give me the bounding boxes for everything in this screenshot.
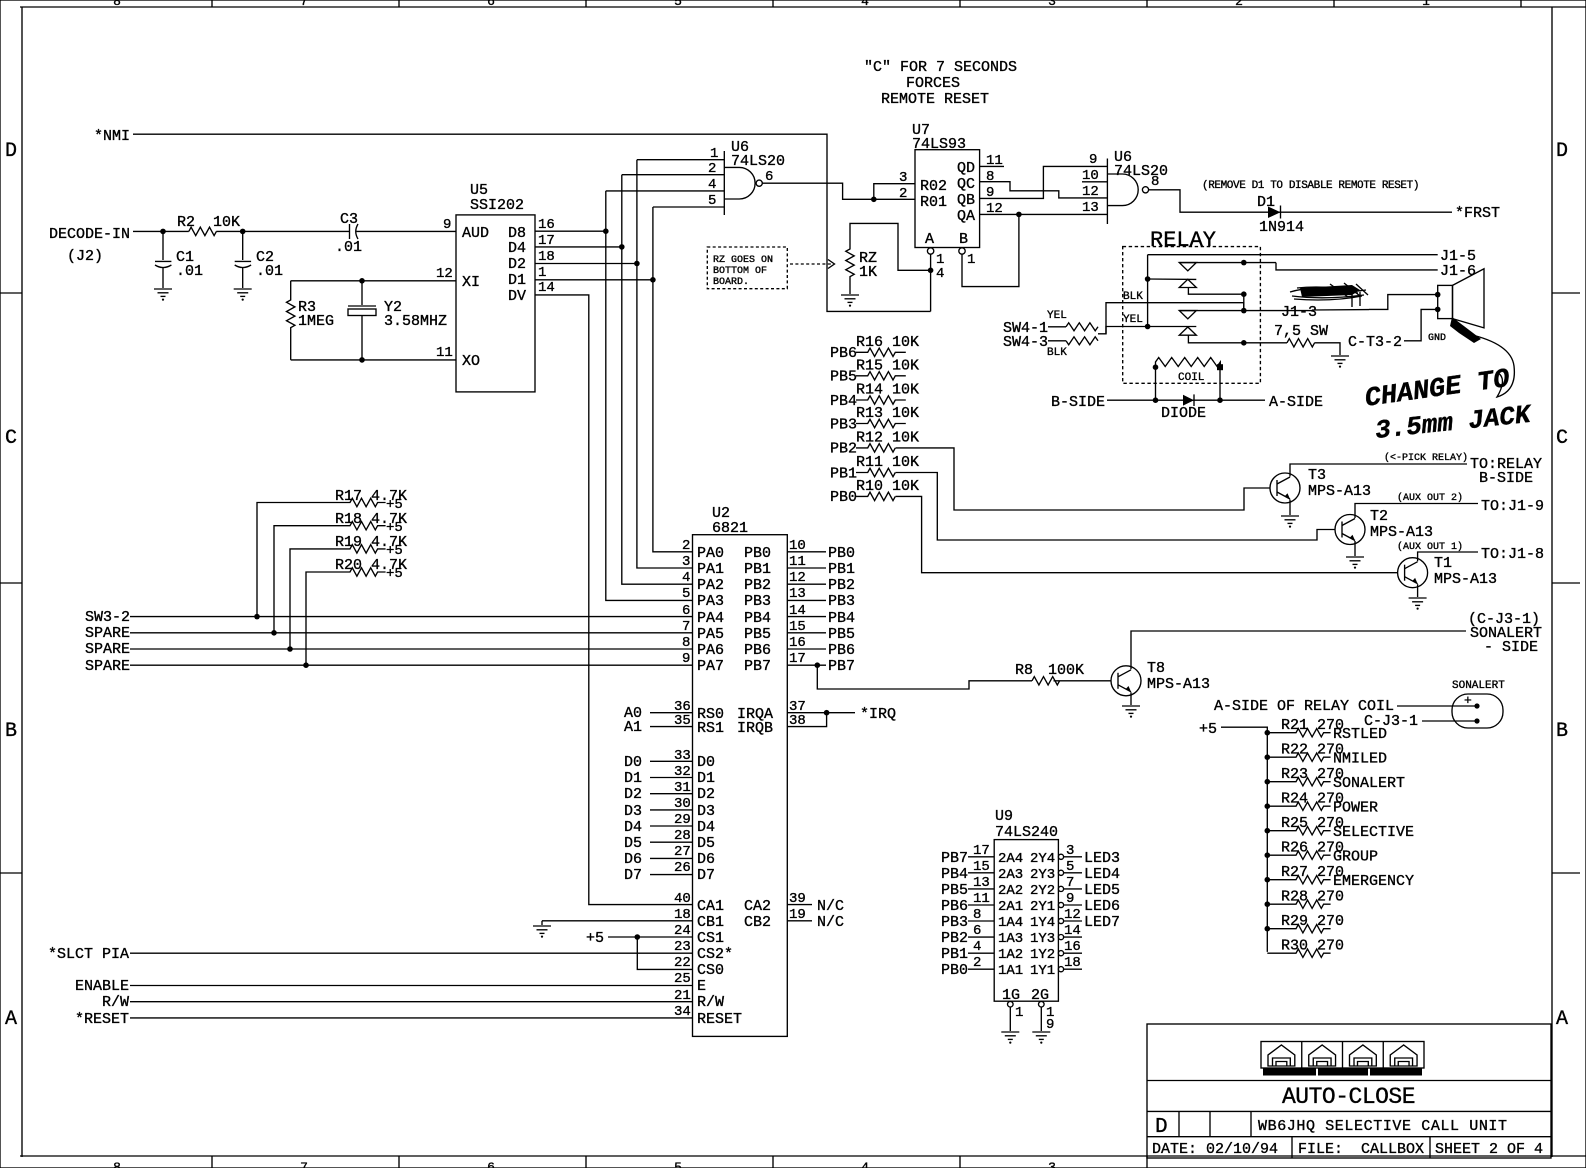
svg-text:D4: D4	[508, 240, 526, 257]
wire XO rail	[291, 359, 456, 361]
junction coil left	[1153, 364, 1159, 370]
svg-text:PA0: PA0	[697, 545, 724, 562]
svg-text:*NMI: *NMI	[94, 128, 130, 145]
wire pin4	[606, 190, 725, 192]
svg-text:PB0: PB0	[830, 489, 857, 506]
svg-text:PB0: PB0	[744, 545, 771, 562]
svg-text:E: E	[697, 978, 706, 995]
wire B-SIDE A-SIDE	[1107, 399, 1265, 401]
svg-text:A: A	[5, 1008, 17, 1031]
pin 12 LED7	[1058, 918, 1063, 923]
svg-text:SHEET 2 OF 4: SHEET 2 OF 4	[1435, 1141, 1543, 1158]
svg-text:2A3: 2A3	[998, 867, 1023, 883]
wire T3 collector	[1290, 464, 1467, 477]
svg-text:+: +	[1464, 693, 1472, 708]
svg-text:YEL: YEL	[1047, 310, 1067, 322]
svg-text:1Y1: 1Y1	[1030, 963, 1055, 979]
svg-text:PB4: PB4	[941, 866, 968, 883]
wire QC to pin12	[980, 182, 1108, 198]
U7GROUP	[707, 122, 1019, 311]
svg-text:PB3: PB3	[828, 593, 855, 610]
wire bus D1-PA0	[653, 207, 693, 552]
svg-text:D2: D2	[508, 256, 526, 273]
junction jack top	[1435, 292, 1441, 298]
ground T8	[1122, 706, 1140, 718]
svg-text:D7: D7	[697, 867, 715, 884]
svg-text:9: 9	[1089, 152, 1097, 168]
pin 16 stub	[1058, 951, 1063, 956]
ground C1	[154, 289, 172, 301]
svg-text:9: 9	[986, 185, 994, 201]
wire J1-3	[1244, 310, 1312, 312]
wire +5 rail	[1221, 727, 1267, 952]
svg-text:*FRST: *FRST	[1455, 205, 1500, 222]
svg-text:FORCES: FORCES	[906, 75, 960, 92]
svg-text:PB3: PB3	[830, 416, 857, 433]
svg-text:1Y4: 1Y4	[1030, 915, 1055, 931]
PBGROUP	[830, 334, 1398, 573]
pin 35 RS1	[650, 726, 693, 728]
svg-text:1A3: 1A3	[998, 931, 1023, 947]
U2GROUP	[48, 488, 896, 1036]
svg-text:1K: 1K	[859, 264, 877, 281]
svg-text:27: 27	[674, 844, 691, 860]
svg-text:XI: XI	[462, 274, 480, 291]
svg-text:30: 30	[674, 796, 691, 812]
svg-text:D7: D7	[624, 867, 642, 884]
pin 18 stub	[1058, 967, 1063, 972]
contact B fixed	[1179, 310, 1244, 312]
wire CB1 to gnd	[542, 920, 693, 922]
TRANSISTORS	[817, 452, 1544, 718]
svg-text:14: 14	[538, 280, 555, 296]
svg-text:4: 4	[861, 0, 869, 9]
junction jack bottom	[1435, 307, 1441, 313]
svg-text:PA1: PA1	[697, 561, 724, 578]
ground T1	[1409, 598, 1427, 610]
svg-text:PB0: PB0	[941, 962, 968, 979]
svg-text:8: 8	[986, 169, 994, 185]
svg-text:18: 18	[538, 249, 555, 265]
scribble crossout	[1290, 283, 1368, 307]
svg-text:1MEG: 1MEG	[298, 313, 334, 330]
svg-text:R01: R01	[920, 194, 947, 211]
svg-text:SONALERT: SONALERT	[1452, 680, 1505, 692]
svg-text:D1: D1	[624, 770, 642, 787]
svg-text:*IRQ: *IRQ	[860, 706, 896, 723]
svg-text:PA6: PA6	[697, 642, 724, 659]
svg-text:REMOTE RESET: REMOTE RESET	[881, 91, 989, 108]
pin 23 CS2*	[130, 952, 693, 954]
svg-text:7,5 SW: 7,5 SW	[1274, 323, 1328, 340]
svg-text:C: C	[1556, 427, 1568, 450]
pin 14 stub	[1058, 935, 1063, 940]
capacitor C2 .01	[242, 231, 244, 260]
svg-text:PB1: PB1	[828, 561, 855, 578]
zone numbers bottom (cut off)	[113, 1160, 1056, 1168]
border top	[20, 6, 1586, 8]
pin 7 LED5	[1058, 886, 1063, 891]
svg-text:13: 13	[1082, 200, 1099, 216]
svg-text:PB1: PB1	[744, 561, 771, 578]
svg-text:QA: QA	[957, 208, 975, 225]
junction QA-B	[1016, 212, 1022, 218]
svg-text:D2: D2	[624, 786, 642, 803]
svg-text:3: 3	[682, 554, 690, 570]
wire to sonalert +	[1397, 705, 1477, 707]
svg-text:PB2: PB2	[744, 577, 771, 594]
svg-text:10K: 10K	[213, 214, 240, 231]
svg-text:(AUX OUT 1): (AUX OUT 1)	[1397, 541, 1463, 553]
svg-text:B: B	[5, 720, 17, 743]
wire *NMI	[133, 134, 931, 311]
junction armB throw	[1241, 340, 1247, 346]
wire QA to pin13	[980, 213, 1108, 215]
svg-text:A: A	[925, 231, 934, 248]
svg-text:4: 4	[682, 570, 690, 586]
svg-text:D6: D6	[624, 851, 642, 868]
pin 3 LED3	[1058, 854, 1063, 859]
pin 32 D1	[650, 777, 693, 779]
svg-text:R/W: R/W	[102, 994, 129, 1011]
wire R12 to T3	[896, 448, 1271, 510]
svg-text:PB7: PB7	[828, 658, 855, 675]
svg-text:IRQB: IRQB	[737, 720, 773, 737]
wire SPARE2 to PA6	[130, 648, 693, 650]
junction A-side coil	[1217, 397, 1223, 403]
svg-text:PB5: PB5	[941, 882, 968, 899]
wire SPARE3 to PA7	[130, 664, 693, 666]
svg-text:B: B	[959, 231, 968, 248]
junction Y2 bottom	[359, 357, 365, 363]
zone ticks top	[212, 0, 1521, 7]
ground RZ	[841, 295, 859, 307]
svg-text:2Y3: 2Y3	[1030, 867, 1055, 883]
pin 26 D7	[650, 874, 693, 876]
svg-text:PB3: PB3	[941, 914, 968, 931]
svg-text:DECODE-IN: DECODE-IN	[49, 226, 130, 243]
junction contact A	[1241, 260, 1247, 266]
contact B armature	[1148, 326, 1197, 328]
svg-text:LED3: LED3	[1084, 850, 1120, 867]
svg-text:D1: D1	[1257, 194, 1275, 211]
pin 22 CS0	[637, 937, 692, 969]
svg-text:8: 8	[113, 0, 121, 9]
svg-text:QD: QD	[957, 160, 975, 177]
svg-text:PB2: PB2	[830, 441, 857, 458]
pin 30 D3	[650, 809, 693, 811]
svg-text:J1-6: J1-6	[1440, 263, 1476, 280]
junction D4	[619, 244, 625, 250]
svg-text:CS0: CS0	[697, 962, 724, 979]
wire T1 collector	[1418, 552, 1478, 561]
svg-text:N/C: N/C	[817, 898, 844, 915]
wire T8 collector to sonalert	[1131, 631, 1466, 669]
ground T3	[1281, 516, 1299, 528]
junction R19	[287, 646, 293, 652]
svg-text:MPS-A13: MPS-A13	[1308, 483, 1371, 500]
svg-text:R29 270: R29 270	[1281, 913, 1344, 930]
svg-text:2A1: 2A1	[998, 899, 1023, 915]
svg-text:PB0: PB0	[828, 545, 855, 562]
svg-text:SPARE: SPARE	[85, 641, 130, 658]
svg-text:MPS-A13: MPS-A13	[1434, 571, 1497, 588]
svg-text:26: 26	[674, 860, 691, 876]
svg-text:(J2): (J2)	[67, 248, 103, 265]
wire J1-6	[1276, 263, 1438, 270]
svg-text:CB2: CB2	[744, 914, 771, 931]
U9GROUP	[941, 808, 1120, 1044]
svg-text:3.58MHZ: 3.58MHZ	[384, 313, 447, 330]
svg-text:D: D	[1556, 140, 1568, 163]
pin 5 LED4	[1058, 870, 1063, 875]
svg-text:T8: T8	[1147, 660, 1165, 677]
contact A armature	[1148, 278, 1197, 280]
junction R01	[871, 197, 877, 203]
svg-text:28: 28	[674, 828, 691, 844]
svg-text:SPARE: SPARE	[85, 625, 130, 642]
wire to sonalert -	[1422, 720, 1477, 722]
svg-text:ENABLE: ENABLE	[75, 978, 129, 995]
svg-text:YEL: YEL	[1123, 314, 1143, 326]
wire D2	[535, 263, 637, 265]
svg-text:+5: +5	[586, 930, 604, 947]
svg-text:2A2: 2A2	[998, 883, 1023, 899]
wire dashed arrow to RZ	[790, 263, 831, 265]
svg-text:13: 13	[789, 586, 806, 602]
ground 7.5SW	[1331, 356, 1349, 368]
wire R11 to T2	[896, 473, 1336, 541]
svg-text:B-SIDE: B-SIDE	[1051, 394, 1105, 411]
svg-text:SW4-3: SW4-3	[1003, 334, 1048, 351]
svg-text:LED6: LED6	[1084, 898, 1120, 915]
svg-text:D4: D4	[624, 819, 642, 836]
svg-text:2: 2	[899, 186, 907, 202]
junction R18	[271, 630, 277, 636]
wire U6b out to FRST	[1149, 190, 1452, 212]
svg-text:1: 1	[1015, 1005, 1023, 1021]
svg-text:3: 3	[1048, 1160, 1056, 1168]
svg-text:2Y4: 2Y4	[1030, 851, 1055, 867]
svg-text:(REMOVE D1 TO DISABLE REMOTE R: (REMOVE D1 TO DISABLE REMOTE RESET)	[1202, 180, 1419, 192]
svg-text:C-T3-2: C-T3-2	[1348, 334, 1402, 351]
pin 29 D4	[650, 825, 693, 827]
svg-text:2: 2	[1235, 0, 1243, 9]
wire pin A down	[930, 254, 932, 311]
svg-text:.01: .01	[176, 263, 203, 280]
svg-text:RSTLED: RSTLED	[1333, 726, 1387, 743]
svg-text:NMILED: NMILED	[1333, 751, 1387, 768]
pin 24 CS1	[608, 936, 693, 938]
svg-text:7: 7	[300, 0, 308, 9]
pin 36 RS0	[650, 712, 693, 714]
junction C1	[160, 229, 166, 235]
svg-text:T3: T3	[1308, 467, 1326, 484]
svg-text:LED7: LED7	[1084, 914, 1120, 931]
U5GROUP	[436, 160, 693, 905]
svg-text:D1: D1	[508, 272, 526, 289]
svg-text:MPS-A13: MPS-A13	[1147, 676, 1210, 693]
wire coil legs	[1155, 367, 1157, 400]
junction R20	[303, 662, 309, 668]
wire pin5	[653, 206, 724, 208]
svg-text:CS2*: CS2*	[697, 946, 733, 963]
svg-text:DV: DV	[508, 288, 526, 305]
pin 9 LED6	[1058, 902, 1063, 907]
svg-text:SSI202: SSI202	[470, 197, 524, 214]
svg-text:A-SIDE: A-SIDE	[1269, 394, 1323, 411]
svg-text:TO:J1-8: TO:J1-8	[1481, 546, 1544, 563]
wire QB to pin9	[980, 166, 1108, 198]
junction armA	[1145, 276, 1151, 282]
wire U6a out to U7	[762, 183, 915, 199]
svg-text:PB7: PB7	[941, 850, 968, 867]
pin 27 D6	[650, 857, 693, 859]
jack J (speaker)	[1438, 285, 1453, 318]
svg-text:2Y1: 2Y1	[1030, 899, 1055, 915]
svg-text:D5: D5	[697, 835, 715, 852]
svg-text:CA1: CA1	[697, 898, 724, 915]
svg-text:GROUP: GROUP	[1333, 849, 1378, 866]
zone ticks left	[0, 293, 22, 873]
junction J1-3 node	[1241, 308, 1247, 314]
pin 21 R/W	[130, 1001, 693, 1003]
svg-text:.01: .01	[335, 239, 362, 256]
svg-text:D0: D0	[697, 754, 715, 771]
zone ticks right	[1552, 293, 1580, 873]
svg-text:POWER: POWER	[1333, 800, 1378, 817]
svg-text:*SLCT PIA: *SLCT PIA	[48, 946, 129, 963]
svg-text:33: 33	[674, 748, 691, 764]
svg-text:PB2: PB2	[941, 930, 968, 947]
svg-text:T1: T1	[1434, 555, 1452, 572]
svg-text:SPARE: SPARE	[85, 658, 130, 675]
svg-text:RZ GOES ON: RZ GOES ON	[713, 255, 773, 266]
svg-text:PB6: PB6	[828, 642, 855, 659]
svg-text:6: 6	[487, 0, 495, 9]
svg-text:C: C	[5, 427, 17, 450]
svg-text:25: 25	[674, 971, 691, 987]
svg-text:WB6JHQ SELECTIVE CALL UNIT: WB6JHQ SELECTIVE CALL UNIT	[1258, 1118, 1508, 1135]
svg-text:D3: D3	[624, 803, 642, 820]
junction D1	[650, 277, 656, 283]
rev cell D	[1178, 1111, 1180, 1136]
svg-text:R30 270: R30 270	[1281, 938, 1344, 955]
handwriting CHANGE TO 3.5MM JACK	[1363, 365, 1534, 446]
svg-text:XO: XO	[462, 353, 480, 370]
svg-text:31: 31	[674, 780, 691, 796]
svg-text:(<-PICK RELAY): (<-PICK RELAY)	[1384, 452, 1468, 464]
note RZ GOES ON BOTTOM OF BOARD	[707, 247, 787, 289]
svg-text:RS1: RS1	[697, 720, 724, 737]
ground T2	[1346, 557, 1364, 569]
svg-text:2Y2: 2Y2	[1030, 883, 1055, 899]
wire SW4 blk to relay	[1106, 303, 1115, 334]
svg-text:*RESET: *RESET	[75, 1011, 129, 1028]
svg-text:D0: D0	[624, 754, 642, 771]
wire XI rail	[291, 280, 456, 282]
svg-text:EMERGENCY: EMERGENCY	[1333, 873, 1414, 890]
svg-text:74LS240: 74LS240	[995, 824, 1058, 841]
pin 25 E	[130, 985, 693, 987]
svg-text:U9: U9	[995, 808, 1013, 825]
TOPLEFT	[49, 128, 931, 363]
junction C2	[240, 229, 246, 235]
svg-text:PB4: PB4	[828, 610, 855, 627]
wire DV to CA1	[535, 295, 693, 905]
svg-text:PA7: PA7	[697, 658, 724, 675]
svg-text:TO:J1-9: TO:J1-9	[1481, 498, 1544, 515]
date cell	[1291, 1137, 1293, 1158]
svg-text:12: 12	[436, 266, 453, 282]
wire T3 emitter to gnd	[1289, 500, 1291, 516]
svg-text:4: 4	[861, 1160, 869, 1168]
svg-text:9: 9	[1046, 1017, 1054, 1033]
svg-text:24: 24	[674, 923, 691, 939]
svg-text:2: 2	[682, 538, 690, 554]
svg-text:PA5: PA5	[697, 626, 724, 643]
switch SW4 crossed pair	[1048, 326, 1066, 328]
GATES	[606, 59, 1500, 236]
svg-text:2A4: 2A4	[998, 851, 1023, 867]
pin 34 RESET	[130, 1017, 693, 1019]
svg-text:7: 7	[300, 1160, 308, 1168]
svg-text:+5: +5	[386, 566, 403, 582]
svg-text:CB1: CB1	[697, 914, 724, 931]
svg-text:3: 3	[899, 170, 907, 186]
diode DIODE	[1183, 395, 1194, 406]
svg-text:PB1: PB1	[830, 465, 857, 482]
svg-text:.01: .01	[256, 263, 283, 280]
svg-text:PB4: PB4	[830, 393, 857, 410]
svg-text:SW3-2: SW3-2	[85, 609, 130, 626]
svg-text:D5: D5	[624, 835, 642, 852]
svg-text:1Y2: 1Y2	[1030, 947, 1055, 963]
ground CB1	[533, 926, 551, 938]
svg-text:1: 1	[538, 265, 546, 281]
svg-text:32: 32	[674, 764, 691, 780]
zone ticks bottom	[212, 1156, 1147, 1168]
capacitor C1 .01	[162, 231, 164, 260]
svg-text:B-SIDE: B-SIDE	[1479, 470, 1533, 487]
svg-text:D4: D4	[697, 819, 715, 836]
TITLEBLOCK	[1147, 1024, 1551, 1158]
svg-text:74LS20: 74LS20	[1114, 163, 1168, 180]
wire T2 collector	[1355, 504, 1478, 519]
svg-text:1A2: 1A2	[998, 947, 1023, 963]
svg-text:9: 9	[443, 217, 451, 233]
pin 28 D5	[650, 841, 693, 843]
svg-text:21: 21	[674, 988, 691, 1004]
svg-text:SONALERT: SONALERT	[1333, 775, 1405, 792]
svg-text:T2: T2	[1370, 508, 1388, 525]
svg-text:PB1: PB1	[941, 946, 968, 963]
svg-text:D1: D1	[697, 770, 715, 787]
RELAYGROUP	[1003, 228, 1534, 446]
svg-text:11: 11	[436, 345, 453, 361]
svg-text:B: B	[1556, 720, 1568, 743]
svg-text:5: 5	[674, 1160, 682, 1168]
junction armA throw	[1241, 291, 1247, 297]
svg-text:CS1: CS1	[697, 930, 724, 947]
coil	[1156, 358, 1221, 368]
junction B-side coil	[1153, 397, 1159, 403]
svg-text:22: 22	[674, 955, 691, 971]
svg-text:D: D	[1155, 1116, 1168, 1139]
svg-text:12: 12	[986, 201, 1003, 217]
svg-text:29: 29	[674, 812, 691, 828]
svg-text:40: 40	[674, 891, 691, 907]
